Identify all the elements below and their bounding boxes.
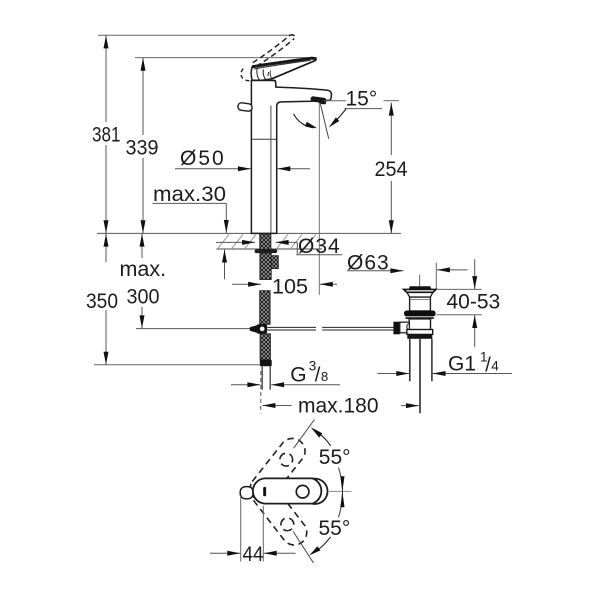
- stream axis vertical extension line: [318, 103, 320, 295]
- drain rod ball socket arc: [407, 324, 410, 330]
- dimension max.180 left arrow: [263, 405, 292, 407]
- dimension 381 line lower: [105, 145, 107, 233]
- axis line of upper dashed handle: [294, 420, 315, 449]
- extension line hose end level: [94, 364, 260, 366]
- dimension G 3/8 left arrow: [231, 384, 260, 386]
- lever base interior strokes: [257, 68, 260, 80]
- faucet column inner shading line: [270, 106, 272, 234]
- svg-text:max.180: max.180: [298, 395, 379, 418]
- dimension max.180 right arrow: [401, 405, 419, 407]
- drain plug cap brim: [404, 289, 436, 292]
- svg-text:Ø34: Ø34: [298, 235, 341, 258]
- max.30 up arrow to deck bottom: [224, 250, 226, 280]
- threaded shank through deck: [260, 234, 271, 250]
- faucet body and spout outline: [251, 81, 331, 234]
- svg-text:55°: 55°: [319, 517, 351, 540]
- dimension 339 line upper: [142, 58, 144, 135]
- dimension Ø50 left arrow: [175, 168, 251, 170]
- mounting washer: [255, 249, 278, 253]
- svg-text:8: 8: [321, 369, 328, 384]
- dimension 254 line lower: [390, 181, 392, 233]
- dimension 350 lower arrow: [105, 310, 107, 365]
- svg-text:G: G: [290, 363, 306, 386]
- svg-text:300: 300: [127, 285, 160, 309]
- pop-up rod coupling: [250, 325, 257, 332]
- lever handle top edge heavy stroke: [252, 58, 315, 67]
- leader upper 55 with arrow: [316, 432, 331, 446]
- dimension max.300 lower arrow: [141, 307, 143, 328]
- dimension G 3/8 right arrow with label underline: [271, 384, 340, 386]
- dimension max.300 upper arrow: [141, 234, 143, 258]
- dimension 350 upper arrow: [105, 234, 107, 262]
- dimension 339 line lower: [142, 158, 144, 233]
- faucet column joint line: [251, 138, 276, 140]
- dimension 381 line upper: [105, 36, 107, 123]
- dimension 44 right arrow: [264, 552, 296, 554]
- stream tilted 15 degree line: [320, 103, 328, 139]
- pop-up rod extension line to left: [136, 328, 250, 330]
- drain upper body seam: [410, 299, 430, 301]
- svg-text:55°: 55°: [319, 446, 351, 469]
- mounting nut and upper hose hatched: [260, 253, 271, 279]
- angle arc bowtie arrows: [340, 476, 344, 491]
- svg-text:G1: G1: [448, 353, 476, 376]
- top view screw hole: [296, 485, 309, 498]
- flexible hose middle hatched: [260, 291, 270, 325]
- swing arc with arrow: [294, 114, 314, 128]
- leader from 15 label with arrow: [332, 109, 346, 125]
- leader lower 55 with arrow: [317, 537, 331, 551]
- lever joint seam: [252, 79, 276, 81]
- dimension Ø34 left arrow: [216, 241, 255, 243]
- extension line drain cap top: [436, 288, 481, 290]
- countertop deck bottom line: [216, 248, 322, 250]
- extension line 44 right: [262, 506, 264, 562]
- dimension 254 line upper: [390, 103, 392, 155]
- svg-text:44: 44: [243, 542, 264, 566]
- faucet axis dashed extension below hose: [260, 371, 262, 414]
- dimension Ø63 right arrow: [437, 269, 468, 271]
- svg-text:4: 4: [491, 359, 499, 374]
- svg-text:40-53: 40-53: [447, 290, 501, 313]
- lever handle inner line: [254, 60, 310, 69]
- drain rubber gasket black: [404, 311, 436, 317]
- lever handle solid: [251, 58, 316, 80]
- extension line 44 left: [240, 496, 242, 562]
- drain skirt seam: [410, 296, 431, 298]
- extension line drain right edge: [435, 263, 437, 290]
- drain lower body: [409, 319, 430, 330]
- drain rod clamp black: [393, 322, 399, 335]
- top view slot mark: [263, 487, 266, 496]
- axis line of lower dashed handle: [293, 532, 313, 563]
- svg-text:254: 254: [375, 157, 408, 181]
- dimension G1 1/4 right arrow with label underline: [433, 373, 512, 375]
- hose connection tube walls: [261, 366, 263, 389]
- drain dark band under nut: [407, 334, 432, 339]
- svg-text:Ø50: Ø50: [180, 147, 226, 170]
- dimension Ø50 right arrow: [277, 168, 310, 170]
- faucet spout aerator: [310, 96, 327, 105]
- lever handle raised dashed heel arc: [241, 69, 251, 81]
- horizontal pop-up rod double line left segment: [267, 326, 316, 328]
- drain lower nut plate: [407, 330, 433, 335]
- horizontal pop-up rod double line right segment: [322, 326, 393, 328]
- svg-text:max.: max.: [120, 257, 167, 281]
- dimension 105 left arrow: [232, 283, 261, 285]
- dimension 44 left arrow: [210, 552, 240, 554]
- wire: extension line top of open spout (339 ref): [135, 57, 317, 59]
- leader max.30 down arrow to deck top: [225, 203, 227, 233]
- angle arc: [339, 468, 343, 518]
- top view dashed handle rotated up 52 deg: [245, 433, 310, 506]
- extension line spout outlet level left segment: [324, 100, 346, 102]
- drain cap skirt sides: [407, 292, 433, 297]
- drain plug cap black top: [409, 286, 431, 289]
- drain rod inlet: [400, 322, 410, 333]
- dimension 40-53 lower: [474, 315, 476, 347]
- dimension 40-53 upper: [474, 259, 476, 289]
- flexible hose lower hatched: [260, 334, 270, 360]
- drain upper body: [410, 297, 431, 311]
- top view handle grip: [253, 478, 321, 503]
- dimension Ø34 right arrow: [276, 241, 298, 243]
- horizontal reference axis: [329, 490, 351, 492]
- lever handle underside edge: [272, 60, 315, 78]
- svg-text:350: 350: [86, 289, 118, 313]
- svg-text:381: 381: [92, 123, 121, 147]
- leader Ø34: [296, 242, 298, 254]
- top view handle dome: [302, 479, 327, 504]
- wire: extension line top of lever (381 ref): [98, 34, 295, 36]
- svg-text:105: 105: [272, 275, 308, 299]
- drain tailpipe walls: [409, 339, 411, 381]
- extension line gasket bottom: [436, 314, 481, 316]
- svg-text:15°: 15°: [346, 88, 378, 111]
- hose end nut black: [260, 360, 272, 366]
- dimension 105 right arrow: [320, 283, 337, 285]
- drain inner pipe extension line: [419, 339, 421, 413]
- mounting nut side tab: [271, 256, 278, 269]
- lever handle raised dashed tip: [291, 35, 295, 39]
- svg-text:339: 339: [126, 136, 159, 160]
- lever handle raised dashed lower edge: [256, 39, 294, 67]
- countertop hatch: [218, 234, 316, 248]
- pop-up pull knob on left: [237, 102, 252, 111]
- drain axis tick above cap: [419, 275, 421, 287]
- extension line spout outlet level right segment: [384, 100, 400, 102]
- countertop deck top line: [97, 232, 401, 234]
- top view pop-up knob: [240, 487, 253, 499]
- top view dashed handle rotated down 52 deg: [247, 477, 312, 550]
- drain gasket lower lip: [405, 317, 434, 319]
- svg-text:/: /: [315, 365, 321, 387]
- dimension G1 1/4 left arrow: [377, 373, 409, 375]
- svg-text:max.30: max.30: [153, 183, 226, 206]
- lever handle raised dashed upper edge: [253, 35, 291, 63]
